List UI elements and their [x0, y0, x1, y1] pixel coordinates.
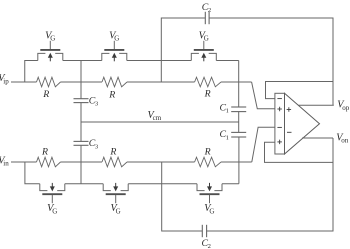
- transistor M2 gate bias label V_G: [109, 30, 119, 42]
- wire C1 upper to V_cm line: [238, 112, 240, 122]
- transistor M5: [103, 183, 128, 203]
- svg-text:on: on: [341, 137, 349, 145]
- svg-text:in: in: [3, 160, 9, 168]
- input label V_in: [0, 155, 9, 167]
- label C3 upper: [89, 95, 99, 107]
- svg-text:ip: ip: [3, 77, 9, 85]
- label R for R1: [42, 89, 49, 100]
- op-amp U1 input bar: [275, 93, 285, 154]
- wire diagonal node C' to op-amp input 3: [252, 127, 275, 162]
- label C2 bottom: [202, 238, 211, 249]
- wire M5 drain to M6 source over node B': [128, 183, 197, 185]
- transistor M6 gate bias label V_G: [204, 203, 214, 215]
- svg-text:1: 1: [226, 134, 229, 141]
- svg-text:cm: cm: [153, 114, 162, 122]
- svg-text:3: 3: [95, 143, 99, 150]
- label V_cm: [148, 110, 162, 122]
- resistor R1 (top left): [37, 77, 61, 87]
- resistor R4 (bottom left): [37, 157, 61, 167]
- label R for R6: [204, 146, 211, 157]
- svg-text:R: R: [41, 147, 48, 158]
- resistor R3 (top right): [195, 77, 221, 87]
- svg-text:R: R: [108, 89, 115, 100]
- wire node C vertical (junction to C1): [238, 61, 240, 108]
- svg-text:G: G: [114, 35, 119, 43]
- label C3 lower: [89, 138, 99, 150]
- label V_op: [337, 100, 350, 112]
- wire M3 drain to node C vertical: [216, 60, 238, 62]
- transistor M5 gate bias label V_G: [111, 203, 121, 215]
- op-amp input sign minus (pin 1): [277, 98, 282, 100]
- svg-text:R: R: [109, 147, 116, 158]
- wire R2 to R3 through node B: [127, 81, 195, 83]
- label C1 upper: [220, 102, 229, 114]
- wire output V_on: [302, 137, 333, 139]
- svg-text:1: 1: [226, 108, 229, 115]
- capacitor C3 (lower): [74, 141, 89, 145]
- wire C2 bottom to V_on vertical: [207, 138, 333, 231]
- resistor R6 (bottom right): [195, 157, 221, 167]
- capacitor C2 (bottom): [202, 225, 206, 237]
- svg-text:G: G: [50, 35, 55, 43]
- svg-text:op: op: [342, 104, 350, 112]
- resistor R5 (bottom middle): [102, 157, 127, 167]
- wire V_cm to C3 lower: [80, 122, 82, 141]
- capacitor C1 (lower): [231, 132, 246, 137]
- wire bottom feedback to op-amp input 4: [265, 142, 334, 162]
- svg-text:R: R: [42, 89, 49, 100]
- label R for R3: [204, 89, 211, 100]
- transistor M3 gate bias label V_G: [199, 30, 209, 42]
- wire node A' vertical (junction to C3 lower): [80, 145, 82, 183]
- transistor M6: [197, 183, 222, 203]
- label R for R5: [109, 147, 116, 158]
- wire top feedback to op-amp input 1: [266, 82, 334, 99]
- op-amp internal minus (bottom): [287, 131, 292, 133]
- wire C3 upper to V_cm line: [80, 103, 82, 122]
- wire M6 drain to node C' vertical: [222, 183, 239, 185]
- label V_on: [336, 132, 349, 144]
- transistor M4 gate bias label V_G: [47, 203, 57, 215]
- op-amp input sign minus (pin 3): [277, 126, 282, 128]
- wire R4 to R5 through node A': [61, 161, 103, 163]
- wire R6 to node C': [221, 161, 252, 163]
- capacitor C2 (top): [205, 12, 209, 24]
- svg-text:R: R: [204, 146, 211, 157]
- wire output V_op: [298, 104, 334, 106]
- wire C2 top to V_op vertical: [209, 18, 333, 105]
- wire node B' down to C2 bottom: [162, 162, 203, 231]
- op-amp input sign plus (pin 4): [277, 140, 282, 145]
- wire M1 source drop to input rail: [25, 61, 38, 83]
- svg-text:3: 3: [95, 101, 99, 108]
- transistor M4: [40, 183, 65, 203]
- label R for R4: [41, 147, 48, 158]
- svg-text:G: G: [209, 207, 214, 215]
- wire V_ip to R1: [11, 81, 37, 83]
- wire M4 drain to M5 source over node A': [65, 183, 103, 185]
- svg-text:2: 2: [208, 243, 211, 249]
- wire R5 to R6 through node B': [127, 161, 195, 163]
- wire M2 drain to M3 source over node B: [127, 60, 192, 62]
- wire R1 to R2 through node A: [61, 81, 103, 83]
- node V_cm horizontal line: [81, 121, 239, 123]
- transistor M1: [38, 41, 63, 62]
- wire M1 drain to M2 source over node A: [63, 60, 102, 62]
- capacitor C3 (upper): [74, 99, 89, 103]
- svg-text:G: G: [52, 207, 57, 215]
- svg-text:G: G: [116, 207, 121, 215]
- svg-text:G: G: [204, 35, 209, 43]
- label C1 lower: [220, 129, 229, 141]
- wire M4 source drop to input rail (bottom): [25, 162, 40, 184]
- label R for R2: [108, 89, 115, 100]
- capacitor C1 (upper): [231, 107, 246, 112]
- wire diagonal node C to op-amp input +: [252, 82, 275, 109]
- wire V_in to R4: [11, 161, 37, 163]
- wire R3 to node C: [221, 81, 252, 83]
- op-amp input sign plus (pin 2): [277, 107, 282, 112]
- transistor M1 gate bias label V_G: [45, 30, 55, 42]
- svg-text:R: R: [204, 89, 211, 100]
- op-amp internal plus (top): [287, 107, 292, 112]
- op-amp U1 triangle: [285, 93, 320, 154]
- resistor R2 (top middle): [102, 77, 127, 87]
- input label V_ip: [0, 73, 9, 85]
- feedback capacitor C2 (top) label: [202, 2, 211, 14]
- wire V_cm to C1 lower: [238, 122, 240, 132]
- wire node B up and over to C2 top: [161, 18, 205, 82]
- wire node A vertical (junction to C3): [80, 61, 82, 99]
- transistor M3: [191, 41, 216, 62]
- transistor M2: [102, 41, 127, 62]
- wire node C' vertical (junction to C1 lower): [238, 137, 240, 184]
